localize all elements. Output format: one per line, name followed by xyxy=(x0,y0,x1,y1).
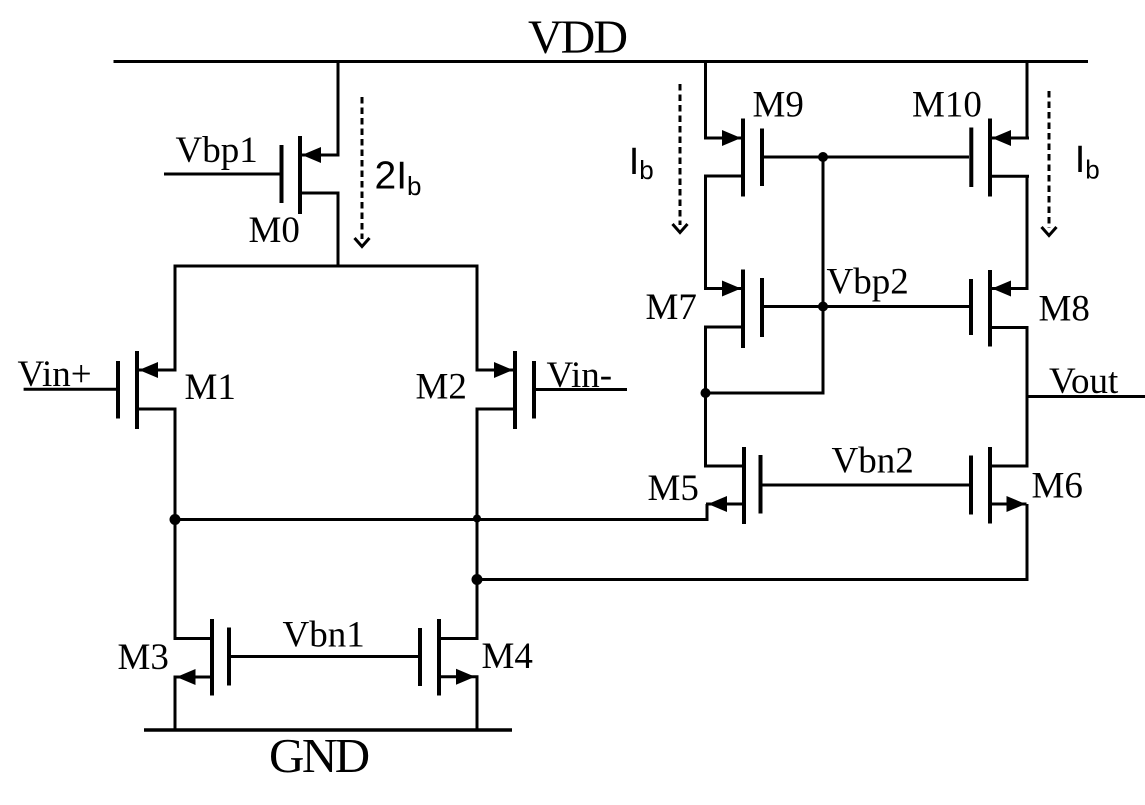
node Vbp2 junction xyxy=(818,302,828,312)
wire M9 source to VDD xyxy=(704,62,707,140)
wire Vout stub xyxy=(1027,395,1145,398)
transistor M2 xyxy=(476,351,535,429)
node A crossing M2 drain xyxy=(473,515,481,523)
svg-text:Ib: Ib xyxy=(629,141,654,185)
node A diff output left xyxy=(170,514,181,525)
node bias gate M9 M10 xyxy=(818,152,828,162)
wire M6 source down xyxy=(1026,504,1029,581)
svg-text:M9: M9 xyxy=(753,85,804,126)
wire bias branch vertical xyxy=(822,157,825,393)
svg-text:M10: M10 xyxy=(912,85,982,126)
wire jog up to M5 source xyxy=(706,504,709,521)
wire M9 M10 gate line xyxy=(764,156,969,159)
wire M2 source up xyxy=(476,266,479,372)
wire M10 source to VDD xyxy=(1026,62,1029,140)
svg-text:Vout: Vout xyxy=(1049,361,1119,402)
svg-text:Vin+: Vin+ xyxy=(18,354,92,395)
transistor M8 xyxy=(971,270,1029,347)
current arrow Ib right xyxy=(1042,91,1057,236)
svg-text:Vbp1: Vbp1 xyxy=(176,130,258,171)
transistor M6 xyxy=(971,447,1029,524)
transistor M9 xyxy=(704,119,762,197)
wire M1 gate Vin+ xyxy=(24,388,116,391)
svg-text:M8: M8 xyxy=(1039,289,1090,330)
node B M2 drain xyxy=(472,574,483,585)
wire node A horizontal to M5 xyxy=(175,518,709,521)
wire node B horizontal to M6 xyxy=(477,578,1029,581)
svg-text:M5: M5 xyxy=(648,468,699,509)
svg-text:Vin-: Vin- xyxy=(547,355,613,396)
svg-text:Vbp2: Vbp2 xyxy=(827,262,909,303)
svg-text:M0: M0 xyxy=(249,210,300,251)
wire M0 source down to tail node xyxy=(337,193,340,268)
svg-text:VDD: VDD xyxy=(528,11,626,64)
svg-text:Vbn2: Vbn2 xyxy=(832,441,914,482)
wire M1 source up xyxy=(174,266,177,372)
transistor M3 xyxy=(174,619,230,696)
transistor M10 xyxy=(971,119,1029,197)
wire M1 drain down to M3 xyxy=(174,409,177,640)
power rail VDD xyxy=(114,60,1089,63)
svg-text:M7: M7 xyxy=(646,287,697,328)
svg-text:M1: M1 xyxy=(185,367,236,408)
wire M0 gate Vbp1 xyxy=(164,173,280,176)
wire Vbn1 gate line xyxy=(231,655,419,658)
current arrow 2Ib xyxy=(355,97,370,247)
svg-text:M4: M4 xyxy=(482,636,533,677)
wire bias branch horizontal xyxy=(704,392,825,395)
current arrow Ib left xyxy=(673,84,688,233)
transistor M4 xyxy=(420,619,479,696)
wire M0 drain to VDD xyxy=(337,62,340,157)
svg-text:M2: M2 xyxy=(416,367,467,408)
wire M8 drain to M6 drain xyxy=(1026,326,1029,468)
wire Vbp2 gate line xyxy=(764,305,969,308)
transistor M1 xyxy=(118,351,177,429)
wire M4 source to GND xyxy=(476,677,479,732)
wire M3 source to GND xyxy=(174,677,177,732)
svg-text:GND: GND xyxy=(269,728,369,783)
wire M2 drain down to M4 xyxy=(476,409,479,640)
node M7 drain junction xyxy=(701,388,711,398)
transistor M5 xyxy=(705,447,761,524)
wire M9 drain to M7 source xyxy=(704,176,707,290)
svg-text:M3: M3 xyxy=(118,637,169,678)
svg-text:2Ib: 2Ib xyxy=(375,155,422,202)
svg-text:Ib: Ib xyxy=(1075,139,1100,184)
ground rail GND xyxy=(144,728,512,732)
svg-text:M6: M6 xyxy=(1032,466,1083,507)
transistor M7 xyxy=(704,270,762,349)
wire tail node horizontal xyxy=(174,265,479,268)
wire M10 drain to M8 source xyxy=(1026,176,1029,290)
svg-text:Vbn1: Vbn1 xyxy=(283,615,365,656)
wire M7 drain down to M5 drain xyxy=(704,327,707,468)
wire Vbn2 gate line xyxy=(762,484,970,487)
wire M2 gate Vin- xyxy=(536,388,627,391)
transistor M0 xyxy=(282,136,340,214)
